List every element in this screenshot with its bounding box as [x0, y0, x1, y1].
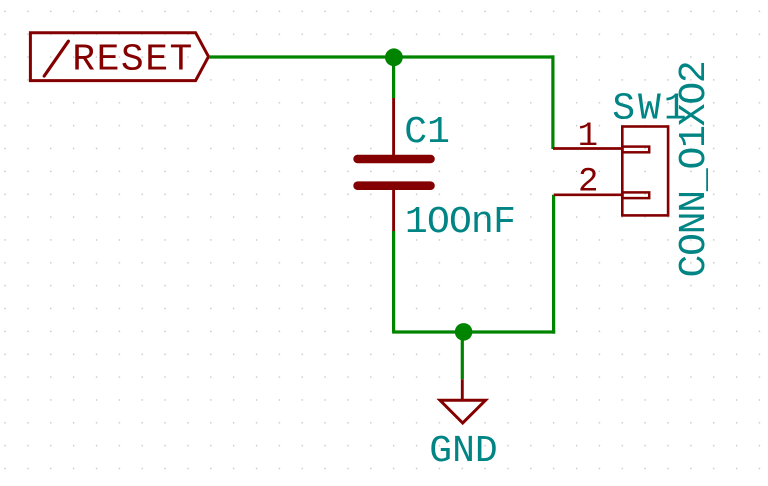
svg-text:GND: GND	[429, 430, 497, 473]
svg-text:2: 2	[578, 164, 598, 202]
svg-text:CONN_O1XO2: CONN_O1XO2	[673, 61, 716, 277]
svg-text:1: 1	[578, 118, 598, 156]
svg-text:RESET: RESET	[72, 39, 194, 82]
svg-text:1OOnF: 1OOnF	[405, 201, 515, 244]
svg-text:C1: C1	[404, 111, 450, 154]
